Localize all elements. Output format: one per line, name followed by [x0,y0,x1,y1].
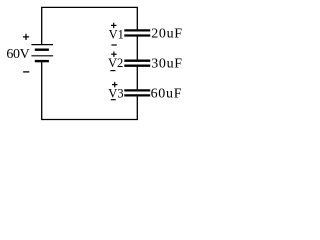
minus sign below V1 [111,44,116,46]
capacitor C1 plates [124,30,150,35]
svg-text:V3: V3 [108,86,123,100]
capacitor C2 plates [124,61,150,66]
battery minus sign [23,71,29,73]
svg-text:20uF: 20uF [151,27,183,42]
capacitor C3 plates [124,90,150,95]
wire between C2 and C3 [136,66,138,91]
wire bottom loop: left lead down from battery, bottom wire, right lead up to C3 [42,61,138,120]
svg-text:V1: V1 [109,27,124,41]
plus sign above V3 [112,82,117,87]
plus sign above V1 [111,23,116,28]
wire top loop: left lead up from battery, top wire, right lead down to C1 [42,7,138,44]
battery plus sign [23,34,29,40]
plus sign above V2 [111,52,116,57]
svg-text:V2: V2 [108,56,123,70]
svg-text:60V: 60V [6,47,29,62]
wire between C1 and C2 [136,36,138,61]
battery B1 (60V source) [31,45,53,62]
minus sign below V2 [110,70,115,72]
svg-text:60uF: 60uF [151,87,183,102]
minus sign below V3 [111,99,116,101]
svg-text:30uF: 30uF [151,57,183,72]
